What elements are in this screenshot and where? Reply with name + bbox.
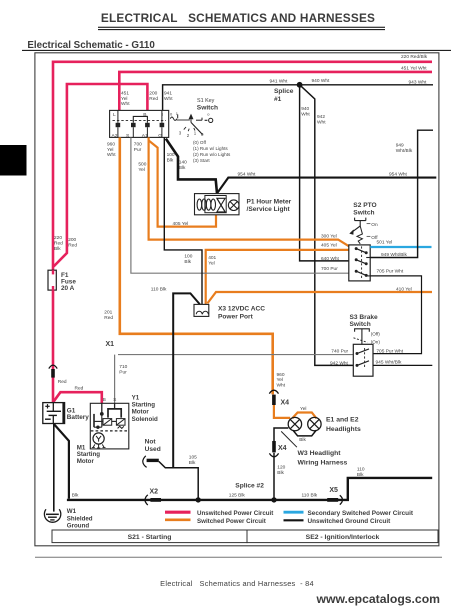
svg-text:960: 960	[107, 141, 115, 147]
lamp E2	[308, 417, 321, 430]
wire 140 Blk thick (G to P1)	[166, 139, 217, 194]
switch S1 box	[110, 110, 169, 137]
svg-text:Yel: Yel	[107, 147, 114, 153]
label 700 Pur (at S2)	[321, 266, 338, 272]
svg-text:940: 940	[301, 106, 309, 112]
label 943 Wht (far right)	[409, 80, 428, 86]
svg-text:Headlights: Headlights	[326, 426, 361, 433]
label X3 12VDC ACC Power Port	[218, 305, 265, 320]
svg-text:0: 0	[170, 111, 173, 116]
label Switch (S1)	[197, 105, 218, 112]
svg-text:Motor: Motor	[77, 458, 95, 465]
legend secondary switched power	[284, 510, 414, 517]
svg-text:S: S	[126, 133, 130, 139]
svg-text:1: 1	[194, 130, 197, 135]
svg-text:Wht: Wht	[317, 120, 326, 126]
S1 bottom terminal letters A2 S A1 G	[112, 133, 163, 139]
svg-text:Ground: Ground	[67, 523, 90, 530]
label Not Used	[145, 439, 161, 453]
svg-text:X4: X4	[278, 445, 287, 452]
label S2 PTO Switch	[353, 202, 376, 216]
svg-text:2: 2	[187, 133, 190, 138]
label 942 Wht (vertical)	[317, 114, 326, 125]
wire 960 Yel Wht / 201 Red (A2 to X4)	[120, 137, 273, 394]
label 941 Wht	[270, 79, 289, 85]
wire ground bus Blk	[67, 478, 432, 500]
svg-text:Red: Red	[104, 315, 113, 321]
wire 710 Pur (X1 to M1 S)	[114, 355, 116, 404]
svg-text:Unswitched Power Circuit: Unswitched Power Circuit	[197, 510, 273, 517]
label 110 Blk (right riser)	[357, 466, 365, 477]
svg-text:Power Port: Power Port	[218, 313, 254, 320]
P1 hourglass symbol	[217, 198, 225, 212]
svg-text:B: B	[143, 112, 146, 118]
svg-text:500: 500	[138, 161, 146, 167]
svg-text:3: 3	[179, 131, 182, 136]
label 110 Blk (ground)	[302, 492, 318, 498]
label G1 Battery	[67, 407, 89, 421]
svg-text:X1: X1	[106, 341, 115, 348]
svg-text:451: 451	[121, 91, 129, 97]
label 300 Yel	[321, 234, 337, 240]
wire 100 Blk (G to X3)	[164, 137, 202, 304]
svg-text:Not: Not	[145, 439, 157, 446]
S3 plunger	[354, 329, 370, 345]
black page tab	[0, 145, 27, 176]
connector X4 (bottom)	[269, 441, 278, 457]
svg-text:100: 100	[167, 152, 175, 158]
label 451 Yel Wht (at S1)	[121, 91, 130, 107]
svg-text:410 Yel: 410 Yel	[396, 286, 412, 292]
svg-text:Starting: Starting	[132, 401, 156, 408]
svg-text:www.epcatalogs.com: www.epcatalogs.com	[316, 592, 441, 606]
label 949 Wht/Blk (at S2)	[381, 252, 407, 258]
svg-text:Blk: Blk	[54, 246, 61, 252]
svg-text:Blk: Blk	[189, 460, 196, 466]
svg-text:740 Pur: 740 Pur	[331, 348, 348, 354]
wire Red (fuse to battery)	[52, 290, 55, 402]
label E1 and E2 Headlights	[326, 416, 361, 432]
svg-text:405 Yel: 405 Yel	[173, 221, 189, 227]
svg-text:G: G	[158, 133, 162, 139]
svg-text:949 Wht/Blk: 949 Wht/Blk	[381, 252, 407, 258]
svg-text:Yel: Yel	[300, 406, 307, 412]
wire 120 Blk (E1 to ground)	[274, 428, 288, 500]
svg-text:Red: Red	[75, 386, 84, 392]
svg-text:Wht: Wht	[164, 96, 173, 102]
svg-text:Electrical Schematic - G110: Electrical Schematic - G110	[27, 40, 155, 51]
schematic frame	[35, 53, 439, 546]
label 500 Yel	[138, 161, 146, 172]
svg-text:Wht: Wht	[301, 112, 310, 118]
S1 bridge B-A1	[133, 116, 147, 122]
wire battery to ground bus	[54, 424, 69, 498]
label X4 (top)	[281, 400, 290, 407]
label 110 Blk (at X3)	[151, 287, 167, 293]
svg-text:Red: Red	[54, 241, 63, 247]
svg-text:941: 941	[164, 91, 172, 97]
svg-text:20 A: 20 A	[61, 285, 75, 292]
subsystem box SE2 - Ignition/Interlock	[247, 530, 438, 543]
heading rule	[22, 49, 451, 51]
label 949 Wht/Blk (top)	[396, 143, 413, 154]
page title	[101, 11, 375, 25]
svg-text:941 Wht: 941 Wht	[270, 79, 289, 85]
svg-text:943 Wht: 943 Wht	[409, 80, 428, 86]
svg-text:Wht: Wht	[121, 101, 130, 107]
label 705 Pur Wht (at S2)	[377, 269, 404, 275]
title double rule	[98, 27, 385, 29]
Y1 dashed separator	[91, 430, 128, 432]
label Yel (headlights)	[300, 406, 307, 412]
wire 943 Wht	[300, 84, 433, 86]
svg-text:300 Yel: 300 Yel	[321, 234, 337, 240]
svg-text:Battery: Battery	[67, 414, 89, 421]
connector (fuse line)	[49, 365, 57, 378]
wire 954 Wht (P1 to right)	[217, 178, 436, 194]
label 954 Wht (right)	[389, 171, 408, 177]
svg-text:700 Pur: 700 Pur	[321, 266, 338, 272]
svg-text:Wht: Wht	[277, 383, 286, 389]
label 410 Yel	[396, 286, 412, 292]
svg-text:940 Wht: 940 Wht	[312, 78, 331, 84]
svg-text:On: On	[371, 222, 378, 228]
svg-text:Splice #2: Splice #2	[235, 483, 264, 490]
svg-text:(2) Run w/o Lights: (2) Run w/o Lights	[193, 152, 231, 157]
svg-text:Wht: Wht	[107, 152, 116, 158]
S2 On/Off labels	[367, 222, 379, 241]
svg-text:Pur: Pur	[134, 147, 142, 153]
label W1 Shielded Ground	[67, 508, 93, 530]
label 940 Wht (right of splice)	[312, 78, 331, 84]
legend unswitched ground	[284, 518, 392, 525]
svg-text:960: 960	[277, 372, 285, 378]
svg-text:Yel: Yel	[208, 261, 215, 267]
junction dot 105 Blk	[196, 497, 201, 502]
wire 501 Yel secondary switched (blue)	[370, 246, 431, 248]
label S1 Key	[197, 98, 215, 104]
svg-text:705 Pur Wht: 705 Pur Wht	[376, 348, 403, 354]
S1 pad stubs	[118, 110, 162, 137]
label 120 Blk	[277, 465, 285, 476]
svg-text:(On): (On)	[371, 339, 381, 344]
label 942 Wht (at S3)	[330, 360, 349, 366]
P1 inner rect	[205, 196, 226, 213]
svg-text:120: 120	[277, 465, 285, 471]
wire Red (battery to solenoid B)	[53, 392, 101, 403]
svg-text:0: 0	[201, 132, 204, 137]
wire Yel headlight feed	[274, 405, 317, 418]
svg-text:954 Wht: 954 Wht	[389, 171, 408, 177]
svg-text:700: 700	[134, 141, 142, 147]
svg-text:220 Red/Blk: 220 Red/Blk	[401, 54, 428, 60]
svg-text:S21 - Starting: S21 - Starting	[128, 534, 172, 541]
label 100 Blk (below S1)	[167, 152, 175, 163]
svg-text:200: 200	[68, 237, 76, 243]
S1 internal dashed bus	[113, 120, 167, 122]
svg-text:Secondary Switched Power Circu: Secondary Switched Power Circuit	[308, 510, 414, 517]
svg-text:Blk: Blk	[184, 259, 191, 265]
svg-text:#1: #1	[274, 96, 282, 103]
subsystem box S21 - Starting	[52, 530, 247, 543]
svg-text:Red: Red	[149, 96, 158, 102]
svg-text:(0) Off: (0) Off	[193, 140, 207, 145]
svg-text:Red: Red	[68, 242, 77, 248]
svg-text:705 Pur Wht: 705 Pur Wht	[377, 269, 404, 275]
label Y1 Starting Motor Solenoid	[132, 395, 158, 423]
svg-text:L: L	[113, 112, 116, 118]
svg-text:(1) Run w/ Lights: (1) Run w/ Lights	[193, 146, 228, 151]
svg-text:Blk: Blk	[72, 492, 79, 498]
label Splice #2	[235, 483, 264, 490]
svg-text:(3) Start: (3) Start	[193, 158, 210, 163]
footer rule	[35, 556, 442, 558]
svg-text:W3 Headlight: W3 Headlight	[298, 450, 342, 457]
svg-text:S: S	[113, 397, 116, 402]
label 451 Yel Wht (top right)	[401, 66, 427, 72]
S1 top terminal letters L B I	[113, 112, 163, 118]
Not Used stub connector	[143, 456, 159, 468]
svg-text:SE2 - Ignition/Interlock: SE2 - Ignition/Interlock	[306, 534, 380, 541]
label 401 Yel	[208, 255, 216, 266]
svg-text:949: 949	[396, 143, 404, 149]
label X1	[106, 341, 115, 348]
svg-text:o: o	[207, 112, 210, 117]
svg-text:Blk: Blk	[357, 472, 364, 478]
svg-text:Blk: Blk	[167, 158, 174, 164]
svg-text:140: 140	[179, 160, 187, 166]
svg-text:405 Yel: 405 Yel	[321, 242, 337, 248]
wire 700 Pur (S to S2)	[131, 137, 349, 273]
svg-text:201: 201	[104, 310, 112, 316]
svg-text:A1: A1	[142, 133, 148, 139]
svg-text:Switch: Switch	[350, 321, 371, 328]
label 220 Red Blk (left)	[54, 235, 63, 252]
label 700 Pur (below S1)	[134, 141, 142, 152]
footer text	[160, 579, 314, 588]
svg-text:942 Wht: 942 Wht	[330, 360, 349, 366]
wire 500 Yel / 300 Yel (A1 to S2)	[149, 137, 349, 246]
svg-text:954 Wht: 954 Wht	[238, 171, 257, 177]
label 960 Yel Wht (at X4)	[277, 372, 286, 389]
wire Blk headlight bridge	[293, 430, 316, 436]
svg-text:Blk: Blk	[277, 470, 284, 476]
svg-text:Blk: Blk	[179, 165, 186, 171]
battery G1	[43, 403, 65, 424]
svg-text:220: 220	[54, 235, 62, 241]
svg-text:P1 Hour Meter: P1 Hour Meter	[247, 199, 292, 206]
S3 (Off)/(On) labels	[371, 332, 381, 345]
section heading	[27, 40, 155, 51]
connector X3 box	[194, 304, 209, 316]
P1 coil	[197, 199, 215, 210]
svg-text:100: 100	[184, 254, 192, 260]
svg-text:E1 and E2: E1 and E2	[326, 416, 359, 423]
svg-text:451 Yel Wht: 451 Yel Wht	[401, 66, 427, 72]
svg-text:401: 401	[208, 255, 216, 261]
P1 service light lamp	[228, 200, 239, 211]
splice #1 junction dot	[297, 82, 303, 88]
label M1 Starting Motor	[77, 444, 101, 465]
wire 405 Yel (A1 branch to P1)	[149, 141, 216, 227]
svg-text:942: 942	[317, 114, 325, 120]
label 940 Wht (vertical)	[301, 106, 310, 117]
label 140 Blk	[179, 160, 187, 171]
label 941 Wht (at S1)	[164, 91, 173, 102]
svg-text:X2: X2	[150, 489, 159, 496]
leader line W3	[281, 431, 297, 447]
label X2	[150, 489, 159, 496]
svg-text:Electrical Schematics and Ha: Electrical Schematics and Harnesses - 84	[160, 579, 314, 588]
wire battery negative to W1	[53, 424, 55, 512]
label Blk (headlights)	[299, 437, 306, 443]
switch S3 box	[353, 344, 373, 376]
fuse F1	[48, 270, 56, 290]
svg-text:710: 710	[119, 364, 127, 370]
label 220 Red/Blk (top right)	[401, 54, 428, 60]
wire 942 Wht	[300, 85, 354, 366]
wire 405 Yel to S2 and 401 Yel to X3	[206, 250, 349, 305]
wire 945 Wht/Blk	[373, 364, 432, 366]
S2 internal contacts	[355, 246, 371, 279]
connector X2	[145, 495, 161, 505]
S1 terminal pads	[116, 123, 165, 127]
label 405 Yel (at S2)	[321, 242, 337, 248]
svg-text:(Off): (Off)	[371, 332, 381, 337]
svg-text:Switch: Switch	[197, 105, 218, 112]
hour meter P1 box	[195, 194, 240, 215]
svg-text:110 Blk: 110 Blk	[302, 492, 318, 498]
S3 internal contacts	[356, 348, 370, 368]
label S3 Brake Switch	[350, 314, 379, 328]
S1 rotary mechanism	[170, 111, 213, 138]
svg-text:200: 200	[149, 91, 157, 97]
label W3 Headlight Wiring Harness	[298, 450, 348, 466]
svg-text:Wht/Blk: Wht/Blk	[396, 148, 413, 154]
label 954 Wht (left)	[238, 171, 257, 177]
S2 plunger and spring	[349, 218, 366, 244]
watermark epcatalogs	[316, 592, 441, 606]
svg-text:S1 Key: S1 Key	[197, 98, 215, 104]
svg-text:/Service Light: /Service Light	[247, 206, 291, 213]
label X4 (bottom)	[278, 445, 287, 452]
lamp E1	[288, 417, 301, 430]
svg-text:Switch: Switch	[353, 209, 374, 216]
svg-text:Switched Power Circuit: Switched Power Circuit	[197, 518, 266, 525]
svg-text:S2 PTO: S2 PTO	[353, 202, 376, 209]
svg-text:501 Yel: 501 Yel	[377, 239, 393, 245]
svg-text:X4: X4	[281, 400, 290, 407]
M1 motor symbol	[92, 433, 106, 448]
label F1 Fuse 20 A	[61, 272, 76, 292]
connector X1 boundary line	[118, 354, 353, 356]
wire 451 Yel Wht unswitched power	[119, 72, 432, 111]
svg-text:Used: Used	[145, 446, 161, 453]
svg-text:Wiring Harness: Wiring Harness	[298, 460, 348, 467]
label Splice #1	[274, 88, 294, 103]
svg-text:B: B	[103, 397, 106, 402]
svg-text:Shielded: Shielded	[67, 515, 93, 522]
svg-text:ELECTRICAL SCHEMATICS AND HA: ELECTRICAL SCHEMATICS AND HARNESSES	[101, 11, 375, 25]
svg-text:105: 105	[189, 454, 197, 460]
svg-text:110 Blk: 110 Blk	[151, 287, 167, 293]
svg-text:Yel: Yel	[138, 167, 145, 173]
svg-text:A2: A2	[112, 133, 118, 139]
starter M1/Y1 box	[90, 403, 129, 449]
label 125 Blk	[229, 492, 246, 498]
wire 200 Red	[54, 84, 148, 267]
label 201 Red	[104, 310, 113, 321]
svg-text:W1: W1	[67, 508, 77, 515]
svg-text:X5: X5	[329, 487, 338, 494]
S1 position list	[193, 140, 231, 163]
svg-text:945 Wht/Blk: 945 Wht/Blk	[376, 360, 402, 366]
M1 terminal letters	[103, 397, 116, 402]
wire 105 Blk	[159, 461, 198, 500]
svg-text:X3 12VDC ACC: X3 12VDC ACC	[218, 305, 265, 312]
label 501 Yel	[377, 239, 393, 245]
legend switched power	[165, 518, 266, 525]
wire 110 Blk (X3 down)	[173, 293, 200, 467]
label 960 Yel Wht (below S1)	[107, 141, 116, 158]
label X5	[329, 487, 338, 494]
wire 705 Pur Wht (S2 to S3)	[370, 276, 421, 354]
svg-text:Red: Red	[58, 379, 67, 385]
wire 220 Red/Blk unswitched power	[53, 62, 432, 270]
label 405 Yel (at P1)	[173, 221, 189, 227]
legend unswitched power	[165, 510, 273, 517]
switch S2 box	[349, 245, 370, 281]
label Red (below connector)	[58, 379, 67, 385]
svg-text:S3 Brake: S3 Brake	[350, 314, 379, 321]
svg-text:Motor: Motor	[132, 409, 150, 416]
svg-text:Solenoid: Solenoid	[132, 416, 158, 423]
label 105 Blk	[189, 454, 197, 465]
label 945 Wht/Blk	[376, 360, 402, 366]
wire 410 Yel (X3 out)	[207, 292, 432, 303]
label 740 Pur	[331, 348, 348, 354]
label 100 Blk (at X3)	[184, 254, 192, 265]
Y1 solenoid internals	[94, 403, 125, 429]
svg-text:Blk: Blk	[299, 437, 306, 443]
svg-text:Pur: Pur	[119, 369, 127, 375]
svg-text:Unswitched Ground Circuit: Unswitched Ground Circuit	[308, 518, 392, 525]
label Red (jumper)	[75, 386, 84, 392]
splice #2 junction dot	[271, 497, 276, 502]
wire 949 Wht/Blk	[370, 130, 433, 257]
label P1 Hour Meter /Service Light	[247, 199, 292, 214]
svg-text:Yel: Yel	[121, 96, 128, 102]
connector X5	[327, 495, 342, 504]
svg-text:640 Wht: 640 Wht	[321, 256, 340, 262]
svg-text:125 Blk: 125 Blk	[229, 492, 246, 498]
connector X4 (orange, top)	[269, 390, 278, 405]
wire 941 Wht	[163, 85, 300, 111]
label Blk (ground left)	[72, 492, 79, 498]
label 200 Red (left)	[68, 237, 77, 248]
label 640 Wht	[321, 256, 340, 262]
ground symbol W1	[44, 509, 60, 522]
label 705 Pur Wht (at S3)	[376, 348, 403, 354]
wire 940 Wht / 640 Wht	[300, 85, 349, 261]
label 710 Pur	[119, 364, 127, 375]
svg-text:Yel: Yel	[277, 377, 284, 383]
svg-text:Splice: Splice	[274, 88, 294, 95]
label 200 Red (at S1)	[149, 91, 158, 102]
svg-text:110: 110	[357, 466, 365, 472]
